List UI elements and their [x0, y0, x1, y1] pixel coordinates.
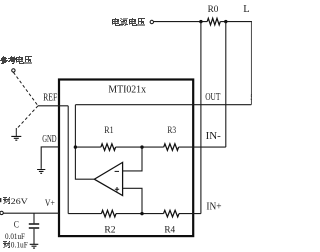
wire op-amp output to OUT net — [75, 105, 94, 180]
svg-text:R3: R3 — [167, 126, 176, 136]
dashed wire reference to REF node — [13, 72, 38, 106]
wire R0 right down to IN- — [225, 22, 227, 148]
label 参考电压 (reference voltage) — [0, 56, 32, 64]
wire R0 left down to IN+ — [200, 22, 202, 214]
reference terminal — [12, 69, 15, 72]
svg-text:IN-: IN- — [206, 131, 222, 142]
wire REF pin — [38, 105, 68, 107]
label 到26V (supply range, clipped) — [3, 197, 10, 204]
resistor R0 — [207, 18, 220, 25]
op-amp plus sign — [115, 187, 119, 191]
ground GND pin — [37, 170, 45, 174]
svg-text:REF: REF — [43, 92, 58, 103]
wire plus input — [123, 188, 142, 213]
resistor R2 — [101, 210, 116, 217]
ground (reference option) — [15, 128, 17, 136]
node at R0 left — [199, 20, 202, 23]
svg-text:R1: R1 — [104, 126, 114, 136]
dashed wire REF node to ground option — [16, 106, 38, 130]
node minus R1 R3 — [140, 145, 143, 148]
svg-text:R0: R0 — [208, 5, 219, 15]
svg-text:R4: R4 — [164, 226, 175, 236]
wire supply to R0 — [154, 21, 208, 23]
resistor R4 — [164, 210, 180, 217]
svg-text:26V: 26V — [11, 197, 28, 206]
svg-text:C: C — [14, 220, 19, 230]
svg-text:GND: GND — [42, 134, 56, 145]
capacitor C — [33, 213, 35, 223]
svg-text:0.1uF: 0.1uF — [11, 240, 29, 249]
wire R0 to load L — [220, 21, 252, 23]
resistor R1 — [101, 144, 116, 151]
svg-text:V+: V+ — [45, 198, 55, 209]
svg-text:R2: R2 — [104, 226, 116, 236]
op-amp minus sign — [115, 170, 119, 172]
wire V+ pin — [3, 212, 59, 214]
op-amp U1 — [94, 162, 122, 195]
node at R0 right — [224, 20, 227, 23]
wire OUT — [75, 104, 251, 106]
label 电源电压 (supply voltage) — [112, 18, 145, 26]
label 到0.1uF — [3, 241, 10, 248]
resistor R3 — [164, 144, 179, 151]
svg-text:MTI021x: MTI021x — [108, 84, 146, 95]
svg-text:5: 5 — [250, 93, 252, 102]
outer IC box MTI021x — [59, 80, 193, 237]
wire right edge vertical — [250, 22, 252, 105]
node op-amp feedback R1 — [74, 145, 77, 148]
ground capacitor — [30, 244, 39, 248]
wire IN- row R1 R3 — [75, 146, 225, 148]
wire GND pin — [41, 147, 59, 169]
svg-text:L: L — [243, 4, 249, 15]
wire REF internal down — [67, 106, 69, 214]
svg-text:OUT: OUT — [205, 92, 221, 103]
supply terminal — [150, 20, 153, 23]
V+ terminal — [0, 211, 3, 214]
wire minus input — [123, 147, 142, 171]
svg-text:IN+: IN+ — [206, 202, 221, 213]
node plus R2 R4 — [140, 212, 143, 215]
wire IN+ row R2 R4 — [68, 213, 201, 215]
